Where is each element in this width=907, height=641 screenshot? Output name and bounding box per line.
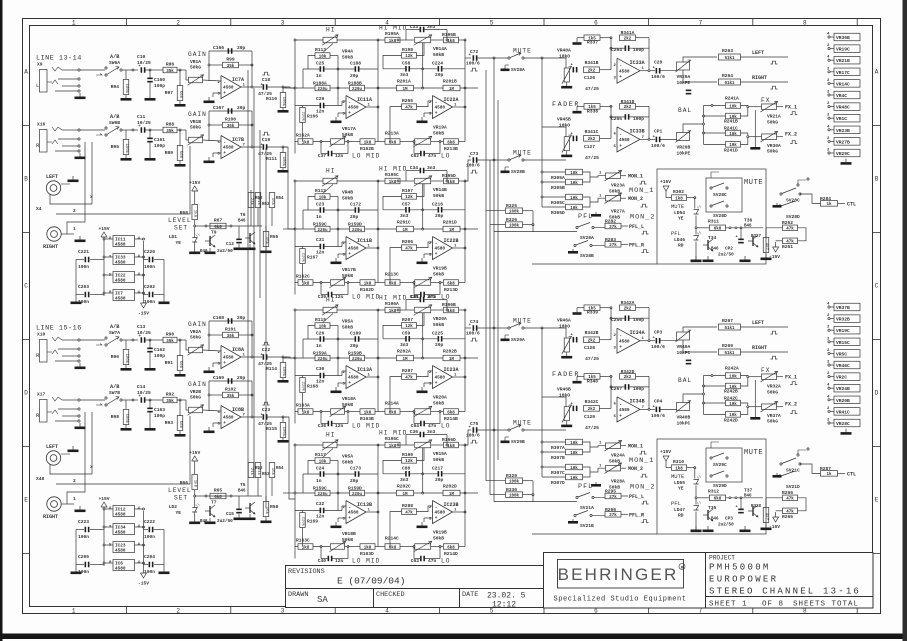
svg-text:C216: C216 (432, 202, 443, 208)
resistor R59 vertical (pair B) (269, 463, 275, 478)
svg-text:D: D (24, 390, 28, 397)
svg-text:20p: 20p (237, 105, 246, 111)
svg-text:X4: X4 (36, 206, 42, 212)
svg-text:+: + (223, 361, 226, 366)
svg-text:MUTE: MUTE (513, 420, 532, 427)
svg-text:R264: R264 (722, 73, 733, 79)
svg-text:LO MID: LO MID (352, 153, 380, 160)
resistor R95 100k shunt (125, 130, 127, 139)
wire LED rail (694, 198, 696, 209)
+15V supply arrow (101, 502, 107, 507)
svg-text:2: 2 (176, 607, 180, 614)
svg-text:VR28A: VR28A (611, 479, 625, 485)
svg-text:R287: R287 (820, 466, 831, 472)
svg-text:1k8: 1k8 (364, 410, 372, 415)
svg-text:R213B: R213B (444, 146, 458, 152)
svg-text:220k: 220k (301, 112, 306, 122)
svg-text:R101: R101 (225, 326, 236, 332)
svg-text:VR14B: VR14B (433, 187, 447, 193)
wire EQ right rail (464, 445, 466, 547)
BEHRINGER logo box (558, 560, 684, 589)
svg-text:50kB: 50kB (433, 457, 444, 463)
wire op-amp IC7A output (241, 86, 262, 88)
svg-text:R338: R338 (587, 108, 598, 114)
svg-text:PFL_L: PFL_L (629, 224, 644, 230)
svg-text:27k: 27k (609, 495, 617, 500)
wire HI MID mid rail (378, 357, 397, 359)
balance pot A cap (686, 360, 692, 362)
resistor R261 47k (783, 238, 798, 244)
svg-text:D: D (875, 390, 879, 397)
svg-text:HI MID: HI MID (379, 430, 407, 437)
svg-text:VR46B: VR46B (557, 386, 571, 392)
FX send pot VR37A 50kG (762, 404, 777, 410)
LED LD55 (694, 480, 699, 485)
svg-text:R261: R261 (782, 244, 793, 250)
svg-text:35k: 35k (227, 64, 235, 69)
svg-text:IC33B: IC33B (630, 129, 645, 135)
PFL switch SV21A (576, 496, 578, 498)
svg-text:FX: FX (761, 367, 770, 374)
supply pins IC box IC6 (113, 560, 135, 571)
wire EQ right rail (464, 310, 466, 412)
svg-text:LO: LO (441, 423, 450, 430)
svg-text:R305D: R305D (551, 210, 565, 216)
svg-text:12k: 12k (405, 324, 413, 329)
svg-text:1k8: 1k8 (193, 480, 198, 488)
patch resistor box VR20B (828, 399, 830, 401)
wire jack tip to switch SW6A (80, 69, 105, 71)
resistor R65 6k8 (210, 493, 226, 499)
wire MON join 1 (583, 442, 591, 452)
svg-text:C36: C36 (410, 429, 419, 435)
svg-text:VR37A: VR37A (767, 413, 781, 419)
svg-text:47/25: 47/25 (585, 356, 599, 362)
jack ground (79, 423, 81, 427)
svg-text:4580: 4580 (223, 356, 234, 361)
svg-text:RIGHT: RIGHT (43, 244, 58, 250)
resistor R54 vertical (269, 193, 275, 208)
svg-text:LINE 15-16: LINE 15-16 (36, 325, 82, 333)
svg-text:R307B: R307B (551, 455, 565, 461)
wire EQ mid vertical (337, 56, 339, 106)
svg-text:SV28D: SV28D (786, 214, 800, 220)
wire mute block to column (806, 503, 812, 505)
svg-text:VR5A: VR5A (342, 454, 353, 460)
svg-text:4580: 4580 (115, 513, 126, 518)
svg-text:100/6: 100/6 (466, 61, 480, 67)
svg-text:E (07/09/04): E (07/09/04) (337, 576, 405, 587)
svg-text:x: x (90, 465, 93, 470)
svg-text:VR1B: VR1B (190, 119, 201, 125)
svg-text:VR21A: VR21A (767, 114, 781, 120)
svg-text:4580: 4580 (435, 247, 446, 252)
svg-text:20p: 20p (350, 214, 359, 220)
svg-text:VR41C: VR41C (836, 409, 850, 415)
svg-text:10kPE: 10kPE (677, 151, 691, 157)
svg-text:220u: 220u (352, 493, 363, 497)
svg-text:IC22B: IC22B (444, 238, 459, 244)
svg-text:50kB: 50kB (342, 325, 353, 331)
svg-text:SET: SET (174, 225, 188, 232)
svg-text:T36: T36 (744, 218, 753, 224)
svg-text:-: - (619, 64, 622, 69)
svg-text:VR29B: VR29B (677, 145, 691, 151)
svg-text:R201B: R201B (443, 79, 457, 85)
switch ground (776, 203, 778, 205)
wire RCA pin 2 to bus (56, 416, 190, 484)
svg-text:C39: C39 (318, 294, 327, 300)
svg-text:R241B: R241B (724, 119, 738, 125)
svg-text:6k8: 6k8 (389, 545, 397, 550)
svg-text:GAIN: GAIN (188, 51, 207, 58)
svg-text:VR36B: VR36B (836, 35, 850, 41)
svg-text:LEFT: LEFT (46, 444, 58, 450)
svg-text:4580: 4580 (223, 416, 234, 421)
inner switch box (706, 178, 742, 212)
op-amp IC34A (617, 328, 640, 353)
svg-text:C126: C126 (584, 75, 595, 81)
svg-text:2: 2 (176, 19, 180, 26)
resistor R114 100k to ground (282, 357, 284, 363)
svg-text:B46: B46 (711, 518, 719, 522)
patch resistor box VR17C (828, 71, 830, 73)
svg-text:+: + (223, 151, 226, 156)
svg-text:R67: R67 (214, 217, 223, 223)
svg-text:R342D: R342D (621, 369, 635, 375)
svg-text:4580: 4580 (115, 567, 126, 572)
svg-text:15k: 15k (264, 507, 269, 515)
supply pins IC box IC12 (113, 506, 135, 517)
wire EQ mid vertical (337, 461, 339, 511)
resistor R169 vertical (300, 513, 306, 528)
svg-text:220k: 220k (301, 382, 306, 392)
svg-text:21k: 21k (256, 198, 261, 206)
svg-text:VR19A: VR19A (433, 125, 447, 131)
MON_2 pot VR28A 50kB (606, 465, 621, 471)
svg-text:560: 560 (178, 421, 182, 429)
svg-text:FX_2: FX_2 (785, 132, 797, 138)
jack ground (79, 153, 81, 157)
capacitor C126 47/25 electrolytic (573, 67, 575, 73)
svg-text:RD: RD (678, 513, 684, 519)
svg-text:R53: R53 (262, 203, 270, 207)
supply pins IC box IC11 (113, 236, 135, 247)
wire RCA left to bus (50, 194, 92, 204)
svg-text:R214A: R214A (385, 401, 399, 407)
svg-text:C15: C15 (226, 512, 234, 517)
op-amp ground (335, 117, 337, 121)
svg-text:220k: 220k (301, 517, 306, 527)
svg-text:T7: T7 (211, 500, 217, 506)
svg-text:R159B: R159B (348, 351, 362, 357)
op-amp IC13A (346, 366, 366, 389)
svg-text:R307D: R307D (551, 480, 565, 486)
wire bus vertical 3 (259, 130, 261, 298)
svg-text:VR40A: VR40A (677, 344, 691, 350)
svg-text:1k8: 1k8 (675, 466, 683, 471)
svg-text:R162A: R162A (296, 133, 310, 139)
svg-text:R196C: R196C (385, 436, 399, 442)
svg-text:SV29B: SV29B (511, 439, 525, 445)
HI MID band pot (415, 307, 431, 313)
resistor R96 100k shunt (125, 340, 127, 349)
svg-text:6k8: 6k8 (447, 410, 455, 415)
svg-text:R162D: R162D (360, 287, 374, 293)
svg-text:4580: 4580 (115, 279, 126, 284)
svg-text:T34: T34 (708, 235, 717, 241)
svg-text:100k: 100k (281, 97, 286, 107)
wire EQ right rail (464, 40, 466, 142)
fader pot ground (566, 151, 568, 155)
svg-text:SV29C: SV29C (713, 462, 727, 468)
wire EQ HI right rail (377, 445, 379, 547)
op-amp IC34B (617, 397, 640, 422)
resistor R52 vertical (248, 193, 254, 208)
svg-text:R213D: R213D (444, 287, 458, 293)
svg-text:R102: R102 (225, 386, 236, 392)
LO MID band pot (295, 282, 298, 284)
svg-text:4580: 4580 (619, 408, 630, 413)
svg-text:47n: 47n (428, 153, 437, 159)
column ground (845, 429, 847, 433)
svg-text:47k: 47k (405, 375, 413, 380)
op-amp ground (208, 157, 210, 161)
svg-text:VR23A: VR23A (611, 183, 625, 189)
wire PFL bus 4 (497, 100, 499, 460)
svg-text:REVISIONS: REVISIONS (288, 568, 325, 576)
svg-text:1k8: 1k8 (389, 180, 397, 185)
svg-text:IC7A: IC7A (232, 77, 244, 83)
op-amp ground (208, 97, 210, 101)
svg-text:MUTE: MUTE (671, 203, 685, 210)
svg-text:50kB: 50kB (433, 52, 444, 58)
svg-text:27k: 27k (609, 513, 617, 518)
RCA left ground (61, 453, 70, 455)
svg-text:35k: 35k (166, 129, 174, 134)
HI MID band pot (415, 178, 431, 184)
svg-text:47/25: 47/25 (585, 86, 599, 92)
wire EQ left rail (294, 40, 296, 154)
svg-text:20p: 20p (435, 342, 444, 348)
svg-text:100p: 100p (633, 386, 644, 392)
svg-text:2k2: 2k2 (624, 37, 632, 42)
svg-text:B46: B46 (238, 220, 246, 224)
svg-text:HI: HI (326, 432, 335, 439)
feedback resistor R102 35k (209, 394, 222, 396)
ground right rail (163, 298, 165, 302)
svg-text:VR29A: VR29A (677, 74, 691, 80)
patch resistor box VR32B (828, 318, 830, 320)
wire gain ch1 to EQ1 (285, 87, 295, 88)
level set grounds (194, 248, 196, 252)
svg-text:MUTE: MUTE (744, 179, 763, 187)
output capacitor C23 47/25 (263, 402, 270, 405)
svg-text:SV28A: SV28A (511, 67, 525, 73)
svg-text:R202C: R202C (397, 484, 411, 490)
svg-text:R214B: R214B (444, 416, 458, 422)
svg-text:4580: 4580 (619, 339, 630, 344)
svg-text:C38: C38 (318, 423, 327, 429)
capacitor C62 47n (413, 547, 415, 559)
svg-text:2k2: 2k2 (588, 339, 596, 344)
svg-text:C31: C31 (316, 237, 325, 243)
svg-text:R205: R205 (402, 98, 413, 104)
HI MID band pot (415, 37, 431, 43)
wire level-set risers (247, 418, 249, 496)
svg-text:2k2: 2k2 (624, 375, 632, 380)
svg-text:LEVEL: LEVEL (168, 487, 192, 494)
svg-text:HI MID: HI MID (379, 25, 407, 32)
resistor R162D 1k8 (360, 280, 375, 286)
svg-text:IC13A: IC13A (357, 367, 372, 373)
svg-text:LD46: LD46 (674, 237, 685, 243)
wire bal B to FX resistors (683, 124, 704, 133)
svg-text:4580: 4580 (435, 106, 446, 111)
inner switch box (706, 448, 742, 482)
wire EQ HI right rail (377, 40, 379, 142)
svg-text:1k8: 1k8 (389, 39, 397, 44)
resistor R88 35k (152, 129, 163, 131)
svg-text:3: 3 (281, 607, 285, 614)
wire EQ left rail (294, 310, 296, 424)
svg-text:FADER: FADER (552, 371, 580, 379)
svg-text:C33: C33 (410, 24, 419, 30)
feedback resistor R101 35k (209, 334, 222, 336)
svg-text:VR21B: VR21B (836, 58, 850, 64)
svg-text:4k7: 4k7 (764, 243, 769, 251)
patch resistor box VR4C (828, 94, 830, 96)
resistor R167 vertical (300, 249, 306, 264)
capacitor C129 47/25 electrolytic (573, 406, 575, 412)
svg-text:BAL: BAL (678, 377, 692, 384)
svg-text:LO: LO (441, 558, 450, 565)
svg-text:C23: C23 (316, 202, 325, 208)
svg-text:VR27B: VR27B (836, 139, 850, 145)
svg-text:+: + (223, 91, 226, 96)
svg-text:MUTE: MUTE (513, 150, 532, 157)
svg-text:R213A: R213A (385, 131, 399, 137)
capacitor C162 100p to ground (149, 340, 151, 348)
svg-text:6k8: 6k8 (214, 495, 222, 500)
svg-text:-: - (619, 334, 622, 339)
wire EQ HI right rail (377, 310, 379, 412)
svg-text:100k: 100k (281, 367, 286, 377)
svg-text:6k8: 6k8 (389, 281, 397, 286)
svg-text:+: + (619, 345, 622, 350)
patch resistor box VR24B (828, 387, 830, 389)
svg-text:R97: R97 (165, 90, 174, 96)
input jack X16 (40, 130, 48, 153)
wire HI MID mid vertical (422, 313, 424, 358)
resistor R242B 10k (726, 383, 741, 389)
svg-text:100/6: 100/6 (651, 74, 665, 80)
svg-text:1k8: 1k8 (447, 444, 455, 449)
svg-text:50kB: 50kB (342, 55, 353, 61)
svg-text:560: 560 (178, 361, 182, 369)
svg-text:R241C: R241C (724, 126, 738, 132)
svg-text:R53: R53 (262, 473, 270, 477)
svg-text:R206: R206 (402, 239, 413, 245)
op-amp ground (421, 117, 423, 121)
svg-text:10k: 10k (570, 451, 578, 456)
resistor R307B 10k (566, 449, 583, 455)
svg-text:CP4: CP4 (654, 398, 663, 404)
svg-text:100n: 100n (144, 534, 155, 540)
svg-text:R95: R95 (111, 144, 120, 150)
resistor R58 vertical (263, 502, 269, 517)
svg-text:1k8: 1k8 (447, 309, 455, 314)
svg-text:VR20B: VR20B (836, 398, 850, 404)
svg-text:R90: R90 (166, 331, 175, 337)
svg-text:47k: 47k (786, 240, 794, 245)
svg-text:HI MID: HI MID (379, 166, 407, 173)
svg-text:C222: C222 (144, 519, 155, 525)
wire PFL resistor joins (523, 210, 534, 212)
patch resistor box VR15C (828, 341, 830, 343)
svg-text:100k: 100k (124, 354, 129, 364)
resistor R338 1k5 (584, 104, 600, 110)
svg-text:R68: R68 (180, 210, 189, 216)
svg-text:SW6A: SW6A (109, 60, 120, 66)
wire mute to fader B (545, 159, 566, 161)
wire mute block to column (806, 233, 812, 235)
op-amp IC23B (433, 501, 453, 524)
resistor R340 1k5 (584, 374, 600, 380)
svg-text:FX_1: FX_1 (785, 375, 797, 381)
LED rail ground (695, 256, 697, 260)
svg-text:21k: 21k (249, 468, 254, 476)
svg-text:YE: YE (175, 240, 181, 246)
op-amp IC13B (346, 501, 366, 524)
supply pins IC box IC34 (113, 524, 135, 535)
switch SV28C (710, 187, 712, 189)
svg-text:C57: C57 (402, 202, 411, 208)
svg-text:3n3: 3n3 (400, 477, 409, 483)
svg-text:R94: R94 (111, 84, 120, 90)
ground under R339 (576, 311, 578, 313)
svg-text:VR40A: VR40A (557, 48, 571, 54)
svg-text:R201A: R201A (397, 79, 411, 85)
svg-text:100p: 100p (154, 143, 165, 149)
svg-text:C11: C11 (137, 114, 146, 120)
-15V supply arrow (141, 573, 147, 578)
svg-text:R342C: R342C (585, 399, 599, 405)
wire mute to fader A (545, 327, 566, 330)
svg-text:R202A: R202A (397, 349, 411, 355)
svg-text:47k: 47k (786, 497, 794, 502)
svg-text:10kPC: 10kPC (677, 350, 691, 356)
svg-text:47/25: 47/25 (585, 155, 599, 161)
resistor R168 vertical (300, 378, 306, 393)
svg-text:R302: R302 (673, 189, 684, 195)
capacitor C128 47/25 electrolytic (573, 337, 575, 343)
svg-text:R341C: R341C (585, 129, 599, 135)
svg-text:PFL: PFL (578, 483, 593, 491)
svg-text:SA: SA (317, 595, 328, 605)
svg-text:C75: C75 (470, 421, 479, 427)
svg-text:100k: 100k (281, 427, 286, 437)
patch resistor box VR23B (828, 129, 830, 131)
patch resistor box VR19C (828, 48, 830, 50)
svg-text:C12: C12 (226, 242, 234, 247)
svg-text:1: 1 (72, 19, 76, 26)
svg-text:R115: R115 (266, 426, 277, 432)
svg-text:47n: 47n (428, 558, 437, 564)
svg-text:x: x (90, 195, 93, 200)
balance pot VR40A 10kPC (677, 332, 690, 340)
svg-text:VR20A: VR20A (433, 316, 447, 322)
